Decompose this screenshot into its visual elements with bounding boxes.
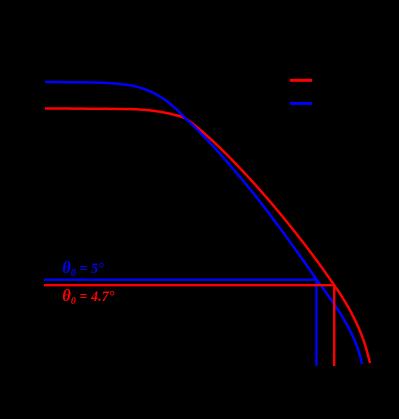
- svg-text:θ0 = 4.7°: θ0 = 4.7°: [62, 286, 114, 307]
- blue beamwidth horizontal line: [44, 279, 316, 281]
- blue curve: [45, 82, 362, 364]
- svg-text:θ0 = 5°: θ0 = 5°: [62, 258, 104, 279]
- blue beamwidth vertical line: [315, 280, 317, 366]
- legend red line sample: [290, 79, 312, 82]
- legend blue line sample: [290, 102, 312, 105]
- red beamwidth horizontal line: [44, 284, 334, 286]
- red curve: [45, 109, 370, 364]
- red beamwidth vertical line: [333, 285, 335, 366]
